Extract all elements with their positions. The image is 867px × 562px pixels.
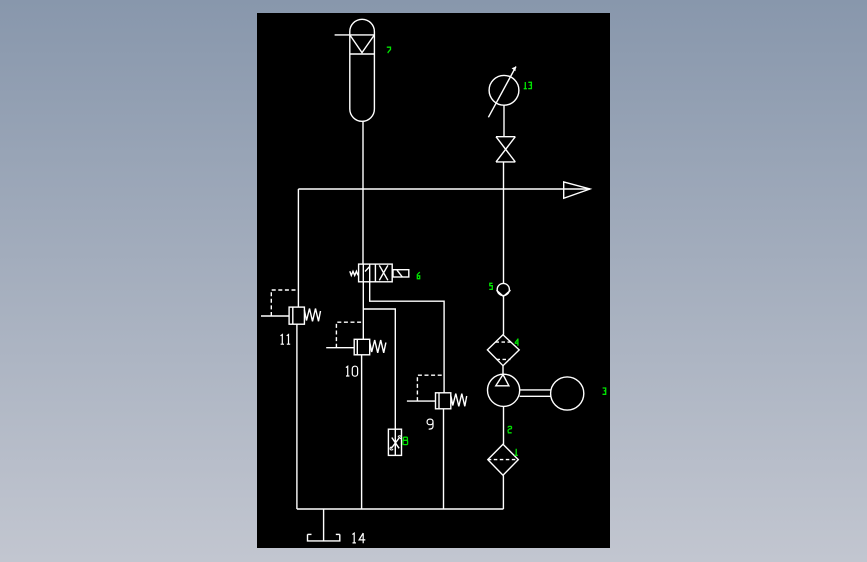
label 2: [508, 426, 512, 432]
wire check valve to filter 4: [503, 296, 505, 334]
label 8: [403, 437, 408, 444]
wire valve 11 to tank header: [296, 324, 298, 509]
motor 3: [551, 377, 584, 410]
relief valve 11: [261, 290, 321, 324]
label 11: [281, 335, 291, 345]
solenoid valve 6: [350, 264, 409, 282]
pump 2: [488, 374, 520, 406]
wire valve 10 to tank header: [361, 355, 363, 509]
accumulator 7: [335, 19, 375, 121]
label 7: [387, 47, 391, 53]
label 10: [346, 366, 358, 376]
tank header wire: [297, 508, 504, 510]
relief valve 10: [326, 322, 386, 355]
label 6: [417, 272, 420, 279]
wire header to tank 14: [323, 509, 325, 541]
shut-off valve: [496, 137, 515, 162]
label 1: [515, 449, 518, 456]
filter 1: [488, 444, 519, 475]
filter 4: [487, 335, 519, 366]
wire filter 1 to tank header: [502, 475, 504, 509]
wire valve 6 to valve 10: [362, 282, 364, 340]
tank 14: [308, 534, 340, 541]
label 3: [603, 388, 606, 394]
label 5: [490, 283, 493, 289]
pressure header wire: [298, 188, 590, 190]
wire pump to filter 1: [503, 406, 505, 444]
wire valve 6 to valve 9 branch: [370, 282, 444, 393]
wire gauge to shut-off valve: [503, 105, 505, 137]
relief valve 9: [407, 375, 467, 409]
wire branch to throttle 8: [363, 309, 395, 455]
label 9: [427, 419, 433, 429]
label 13: [524, 82, 532, 89]
wire accumulator to valve 6: [362, 121, 364, 264]
label 14: [352, 533, 365, 543]
wire valve 9 to tank header: [443, 409, 445, 509]
wire header to valve 11: [297, 189, 299, 307]
wire shut-off valve to check valve 5: [503, 162, 505, 284]
pressure gauge 13: [488, 67, 519, 118]
label 4: [515, 339, 519, 346]
throttle valve 8: [388, 429, 401, 455]
shaft: [520, 390, 551, 396]
flow arrow: [564, 182, 590, 198]
check valve 5: [497, 283, 511, 296]
wire filter 4 to pump: [502, 366, 504, 375]
